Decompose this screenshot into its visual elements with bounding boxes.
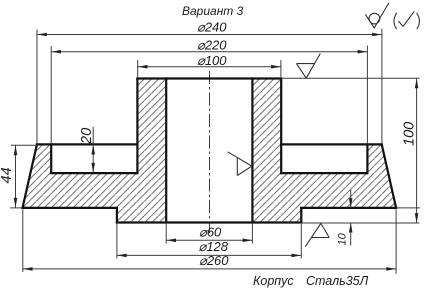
- dim Ф60 arrow right: [243, 239, 253, 243]
- dim 10 arrow up (tip at bottom face): [349, 223, 353, 233]
- dim 10 line upper: [350, 190, 352, 208]
- dim Ф128 extension left: [116, 224, 118, 259]
- pocket floor left: [51, 172, 137, 174]
- bore wall right: [251, 79, 253, 223]
- dim Ф220 extension right: [366, 46, 368, 144]
- svg-text:⌀60: ⌀60: [199, 225, 222, 240]
- dim Ф100 line: [138, 66, 281, 68]
- outer bottom left: [23, 207, 117, 209]
- roughness mark on hub top face: [297, 54, 321, 79]
- svg-text:⌀100: ⌀100: [197, 53, 227, 68]
- svg-text:Вариант 3: Вариант 3: [182, 4, 244, 18]
- dim Ф240 extension left: [36, 30, 38, 144]
- svg-text:100: 100: [402, 122, 418, 146]
- parenthesized check: check mark: [399, 11, 415, 26]
- svg-text:⌀260: ⌀260: [199, 253, 229, 268]
- roughness mark in bore: [228, 152, 252, 176]
- dim Ф128 line: [117, 254, 301, 256]
- pocket wall left: [50, 144, 52, 173]
- svg-text:⌀240: ⌀240: [197, 20, 227, 35]
- bottom face: [117, 221, 301, 223]
- dim Ф220 arrow right: [358, 50, 368, 54]
- bottom step right: [300, 208, 302, 223]
- dim Ф220 extension left (above face): [50, 46, 52, 143]
- general roughness symbol top right: [365, 3, 388, 28]
- dim 100 arrow up: [415, 79, 419, 89]
- flange top face left: [37, 143, 137, 145]
- bottom step left: [116, 208, 118, 223]
- dim Ф240 line: [37, 34, 382, 36]
- centerline: [209, 71, 211, 233]
- svg-text:20: 20: [79, 128, 95, 145]
- dim Ф240 arrow left: [37, 33, 47, 37]
- pocket floor right: [281, 172, 367, 174]
- dim 44 extension top: [11, 144, 36, 146]
- dim Ф260 arrow right: [386, 267, 396, 271]
- part outline: hub top face: [137, 77, 281, 79]
- dim Ф220 arrow left: [52, 50, 62, 54]
- flange slant right: [382, 144, 396, 208]
- bore wall left: [165, 79, 167, 223]
- dim Ф128 extension right: [300, 224, 302, 259]
- dim Ф240 arrow right: [372, 33, 382, 37]
- parenthesized check: (: [394, 13, 397, 29]
- dim 10 line lower: [350, 223, 352, 245]
- dim Ф60 arrow left: [167, 239, 177, 243]
- flange slant left: [23, 144, 37, 208]
- hatch left half section: [23, 79, 167, 223]
- dim 10 extension (outer bottom extended right): [396, 207, 420, 209]
- dim Ф60 extension left: [165, 224, 167, 244]
- svg-text:Корпус: Корпус: [253, 274, 294, 288]
- hatch right half section: [252, 79, 396, 223]
- svg-text:⌀220: ⌀220: [197, 38, 227, 53]
- dim 100 line: [416, 79, 418, 223]
- svg-text:44: 44: [0, 167, 15, 183]
- parenthesized check: ): [417, 13, 420, 29]
- flange top face right: [281, 143, 382, 145]
- svg-text:⌀128: ⌀128: [199, 239, 229, 254]
- dim 44 arrow down: [14, 198, 18, 208]
- dim Ф260 arrow left: [23, 267, 32, 271]
- general roughness symbol circle: [369, 13, 380, 24]
- dim 100 arrow down: [415, 213, 419, 223]
- dim Ф260 line: [23, 268, 396, 270]
- dim 20 arrow down: [91, 163, 95, 173]
- dim Ф60 line: [166, 239, 252, 241]
- dim 44 extension bottom: [10, 207, 22, 209]
- dim 100 extension bottom (bottom face extended): [301, 222, 419, 224]
- dim Ф220 line: [51, 51, 367, 53]
- dim Ф100 extension left: [137, 60, 139, 77]
- svg-text:10: 10: [337, 232, 349, 245]
- dim Ф100 arrow left: [138, 65, 148, 69]
- dim Ф128 arrow right: [292, 254, 302, 258]
- hub outer wall right: [280, 79, 282, 174]
- roughness mark on bottom face: [305, 223, 329, 246]
- dim Ф260 extension left: [22, 210, 24, 273]
- dim Ф60 extension right: [251, 224, 253, 244]
- outer bottom right: [301, 207, 396, 209]
- dim Ф128 arrow left: [117, 254, 127, 258]
- dim Ф240 extension right: [381, 29, 383, 143]
- dim Ф260 extension right: [395, 210, 397, 274]
- dim Ф100 arrow right: [271, 65, 281, 69]
- pocket wall right: [366, 144, 368, 173]
- dim 44 arrow up: [14, 146, 18, 156]
- dim 20 line: [92, 127, 94, 172]
- dim Ф100 extension right: [280, 60, 282, 77]
- dim 100 extension top (hub top face extended): [281, 77, 419, 79]
- svg-text:Сталь35Л: Сталь35Л: [306, 274, 369, 288]
- hub outer wall left: [136, 79, 138, 174]
- dim 10 arrow down (tip at outer bottom): [349, 198, 353, 208]
- dim 44 line: [15, 145, 17, 207]
- dim 20 arrow up: [91, 145, 95, 155]
